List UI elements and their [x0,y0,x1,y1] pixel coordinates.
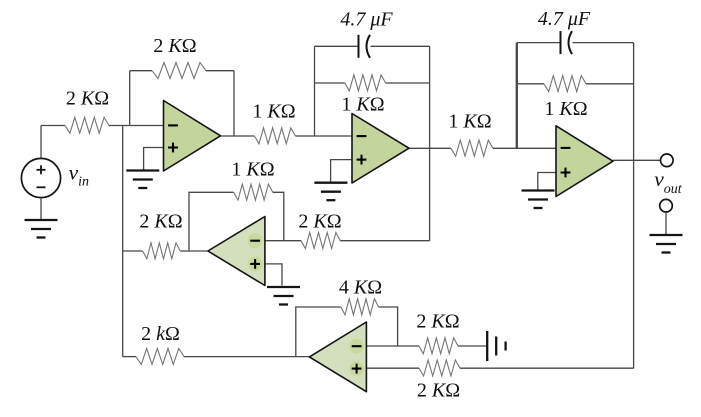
op-amp U3 [556,126,613,197]
wire U2 feedback res left [315,82,345,84]
wire to op-amp U3 - input [493,147,556,149]
wire R42 to U2 output vertical [340,240,429,242]
svg-text:4 KΩ: 4 KΩ [339,277,382,299]
svg-text:4.7 μF: 4.7 μF [340,9,393,31]
wire U2 feedback left vertical [314,46,316,136]
wire U5 output [184,356,310,358]
voltage source vin [21,158,60,197]
wire U3 cap top left [517,42,561,44]
ground vout [650,235,683,253]
wire U4 + input to ground [265,264,282,286]
resistor Rin 2 KΩ [65,117,109,133]
svg-text:1 KΩ: 1 KΩ [544,98,587,120]
wire U5 feedback left [296,307,341,357]
capacitor C2 4.7 uF [561,31,573,54]
wire U5 - input left [366,345,419,347]
wire input left [41,125,65,127]
resistor Rf4 1 KΩ [234,184,273,200]
wire U3 cap top right [573,42,634,44]
wire U4 feedback left [189,192,234,251]
wire U5 feedback right [379,307,398,346]
svg-text:2 KΩ: 2 KΩ [417,380,460,402]
wire U2 cap top right [371,45,430,47]
wire U3 + input to ground [538,173,556,191]
wire U2 output right vertical [429,46,431,240]
resistor Rf2 1 KΩ [345,75,386,91]
wire U2 + input to ground [331,160,352,183]
wire U5 + input left [366,367,419,369]
wire source to ground [40,198,42,220]
resistor R51 2 kΩ [136,348,184,364]
wire U1 feedback top right [206,70,234,72]
wire U1 + input to ground [144,148,164,171]
capacitor C1 4.7 uF [359,35,371,58]
wire R41 to summing node [123,250,143,252]
terminal vout [661,154,674,167]
wire U4 - input left [265,240,301,242]
ground U4 [267,287,300,305]
svg-text:1 KΩ: 1 KΩ [252,101,295,123]
svg-text:2 KΩ: 2 KΩ [153,35,196,57]
wire U1 feedback left vertical [129,71,131,126]
wire input to op-amp U1 - input [109,125,164,127]
wire R5m to ground [458,345,487,347]
svg-text:1 KΩ: 1 KΩ [341,94,384,116]
wire U3 feedback res left [517,83,544,85]
wire U4 feedback right [273,192,284,240]
ground source [25,220,58,238]
op-amp U2 [352,114,409,184]
op-amp U4 [208,217,265,286]
resistor R41 2 KΩ [143,243,181,259]
svg-text:1 KΩ: 1 KΩ [231,159,274,181]
resistor R5p 2 KΩ [419,360,460,376]
svg-text:4.7 μF: 4.7 μF [538,8,591,30]
wire U3 output to vout terminal [613,159,660,161]
resistor R42 2 KΩ [301,233,340,249]
wire U1 feedback top left [130,70,152,72]
wire U2 cap top left [315,45,359,47]
resistor Rf1 2 KΩ [152,63,206,79]
op-amp U1 [164,101,221,172]
wire U4 output [180,250,207,252]
resistor R5m 2 KΩ [419,338,458,354]
terminal vout ground side [660,199,673,212]
wire summing node vertical [122,126,124,357]
resistor Rf3 1 KΩ [544,76,586,92]
ground U5 - input (sideways) [487,331,505,361]
wire U3 feedback res right [586,83,634,85]
wire R51 to summing node [123,356,136,358]
wire U2 feedback res right [386,82,430,84]
wire U2 output [409,147,451,149]
resistor R12 1 KΩ [254,128,295,144]
wire source top [40,126,42,159]
ground U2 [314,183,347,201]
svg-text:2 kΩ: 2 kΩ [141,323,180,345]
resistor R23 1 KΩ [451,140,493,156]
ground U1 [126,171,159,189]
wire U1 output [221,135,255,137]
wire U1 feedback right vertical [233,71,235,136]
op-amp U5 [309,322,366,392]
wire U3 feedback left vertical [516,43,518,149]
svg-text:2 KΩ: 2 KΩ [298,211,341,233]
wire to op-amp U2 - input [295,135,352,137]
resistor Rf5 4 KΩ [341,299,379,315]
wire R5p to vout feedback vertical [460,367,634,369]
wire U3 output right vertical to bottom feedback [633,43,635,369]
svg-text:2 KΩ: 2 KΩ [139,211,182,233]
ground U3 [522,191,555,209]
svg-text:1 KΩ: 1 KΩ [448,111,491,133]
svg-text:2 KΩ: 2 KΩ [416,311,459,333]
svg-text:2 KΩ: 2 KΩ [66,88,109,110]
wire vout terminal to ground [665,212,667,235]
